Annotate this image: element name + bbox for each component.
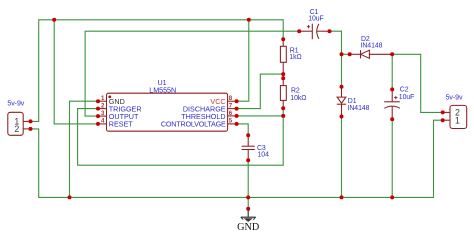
svg-text:C2: C2 xyxy=(400,87,409,94)
svg-text:IN4148: IN4148 xyxy=(348,105,370,112)
svg-text:104: 104 xyxy=(258,152,270,159)
svg-text:CONTROLVOLTAGE: CONTROLVOLTAGE xyxy=(161,120,226,129)
svg-text:GND: GND xyxy=(237,222,259,233)
svg-text:1: 1 xyxy=(455,115,460,125)
svg-text:10uF: 10uF xyxy=(308,15,324,22)
svg-text:D1: D1 xyxy=(348,98,357,105)
svg-text:IN4148: IN4148 xyxy=(361,42,383,49)
svg-text:RESET: RESET xyxy=(109,120,134,129)
svg-text:5v-9v: 5v-9v xyxy=(7,100,24,107)
svg-text:2: 2 xyxy=(14,124,19,134)
svg-text:1kΩ: 1kΩ xyxy=(289,54,301,61)
svg-text:R2: R2 xyxy=(291,88,300,95)
svg-text:5v-9v: 5v-9v xyxy=(446,95,463,102)
svg-text:10kΩ: 10kΩ xyxy=(290,95,306,102)
svg-text:LM555N: LM555N xyxy=(149,85,176,94)
svg-text:10uF: 10uF xyxy=(399,94,415,101)
